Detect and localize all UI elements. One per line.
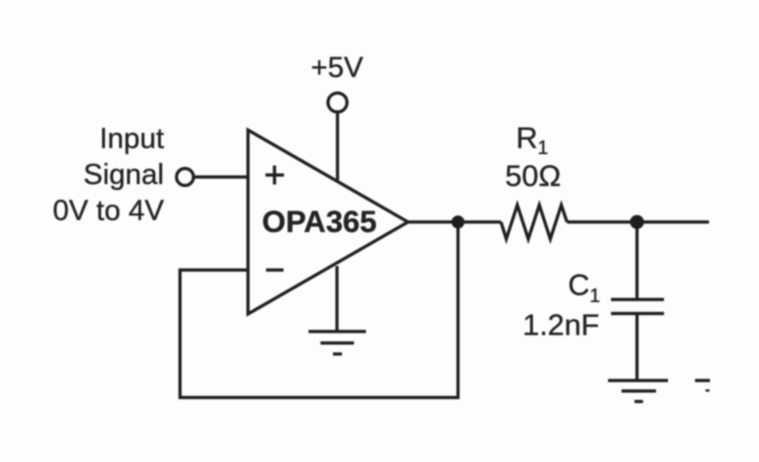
svg-text:0V to 4V: 0V to 4V xyxy=(53,195,165,227)
svg-text:OPA365: OPA365 xyxy=(262,205,377,239)
svg-text:Signal: Signal xyxy=(83,159,164,191)
svg-text:1.2nF: 1.2nF xyxy=(523,309,600,342)
svg-text:50Ω: 50Ω xyxy=(505,160,561,193)
svg-text:Input: Input xyxy=(100,123,165,155)
svg-text:+5V: +5V xyxy=(311,52,364,84)
